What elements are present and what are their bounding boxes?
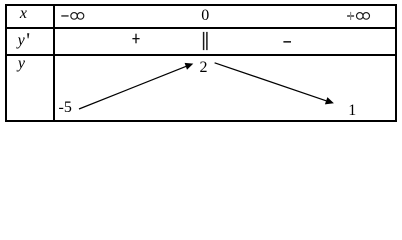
function label y	[18, 56, 25, 71]
plus sign in derivative row	[132, 34, 139, 44]
falling arrow	[215, 63, 334, 105]
minus infinity symbol	[61, 13, 83, 20]
column separator line	[53, 6, 54, 120]
rising arrow	[79, 63, 193, 109]
zero label	[201, 8, 209, 23]
value -5	[59, 100, 72, 115]
row separator line 2 (below y' row)	[7, 54, 395, 56]
minus sign in derivative row	[283, 41, 291, 43]
plus infinity symbol	[347, 12, 369, 20]
value 1	[348, 103, 356, 118]
prime mark of y'	[27, 33, 29, 38]
derivative label y'	[18, 33, 25, 48]
table outer border	[5, 4, 397, 122]
double bar discontinuity at 0	[204, 32, 207, 50]
header variable x	[20, 6, 27, 21]
row separator line 1 (below x row)	[7, 27, 395, 29]
value 2	[200, 60, 208, 75]
